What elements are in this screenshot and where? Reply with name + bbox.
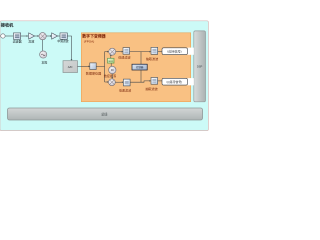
wire with arrow (35, 35, 40, 37)
svg-text:(FPGA): (FPGA) (84, 40, 94, 44)
LPF I box (123, 48, 130, 55)
mixer I (109, 48, 116, 55)
wire with arrow (21, 35, 29, 37)
DEC I box (151, 47, 158, 54)
wire with arrow (46, 35, 51, 37)
wire DEC I to I output (158, 51, 162, 53)
wire A/D to register (78, 66, 91, 68)
svg-text:低通滤波: 低通滤波 (119, 87, 131, 92)
Q output box (162, 78, 194, 85)
wire mixer I to LPF I (116, 51, 124, 53)
wire (5, 35, 13, 37)
wire LPF Q to DEC Q (130, 80, 151, 82)
svg-text:DSP: DSP (197, 65, 203, 69)
svg-text:总线: 总线 (101, 112, 108, 117)
wire NCO to phase (110, 63, 112, 66)
svg-text:中频滤波: 中频滤波 (57, 39, 68, 43)
local oscillator (40, 51, 47, 58)
svg-text:A/D: A/D (68, 65, 73, 69)
wire phase to mixer Q (111, 74, 113, 79)
filter box F1 (13, 33, 20, 39)
svg-text:NCO: NCO (109, 61, 114, 63)
input node (1, 34, 5, 38)
svg-text:抽取滤波: 抽取滤波 (145, 86, 157, 91)
phase shifter (109, 66, 116, 73)
svg-text:数字下变频器: 数字下变频器 (81, 33, 106, 38)
wire LO to mixer (42, 40, 44, 51)
wire DEC Q to Q output (158, 80, 162, 82)
wire NCO to mixer I (110, 55, 112, 59)
A/D converter (63, 61, 78, 73)
bus bar (8, 108, 203, 120)
wire LPF I to DEC I (130, 51, 151, 53)
panel background (0, 21, 208, 131)
junction line control to Q wire (140, 70, 142, 82)
mixer M1 (39, 33, 46, 40)
wire mixer Q to LPF Q (115, 81, 123, 83)
svg-text:控制器: 控制器 (136, 65, 144, 69)
DEC Q box (151, 78, 158, 85)
amplifier A1 (29, 33, 35, 39)
mixer Q (109, 79, 116, 86)
I output box (162, 48, 194, 55)
svg-text:数据寄存器: 数据寄存器 (86, 71, 101, 76)
filter box F2 (60, 33, 67, 39)
wire splitter (96, 52, 107, 82)
svg-text:Q(基带信号): Q(基带信号) (167, 79, 183, 84)
LPF Q box (123, 79, 130, 86)
svg-text:低通滤波: 低通滤波 (118, 54, 130, 59)
wire to A/D (67, 36, 71, 59)
svg-text:本振: 本振 (42, 60, 48, 65)
amplifier A2 (52, 33, 58, 39)
svg-text:I(基带信号): I(基带信号) (167, 48, 181, 53)
junction line to control box (140, 52, 142, 65)
DSP bar (194, 31, 206, 102)
svg-text:滤波器: 滤波器 (13, 38, 22, 43)
svg-text:接收机: 接收机 (1, 22, 14, 29)
DDC block (orange region) (81, 33, 190, 102)
svg-text:高放: 高放 (28, 38, 34, 43)
input register box (90, 63, 96, 70)
control box (132, 64, 147, 70)
svg-text:抽取滤波: 抽取滤波 (146, 56, 158, 61)
svg-text:数控振荡: 数控振荡 (104, 73, 116, 78)
NCO box (108, 58, 115, 63)
wire (58, 35, 60, 37)
